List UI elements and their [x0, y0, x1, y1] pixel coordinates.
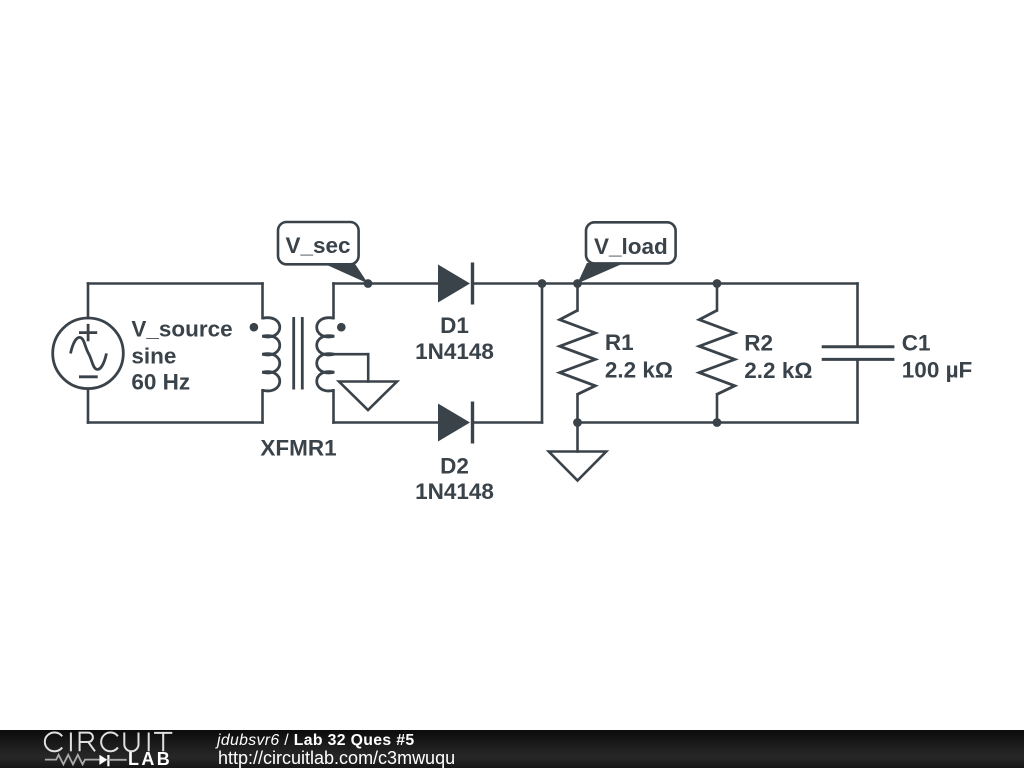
- footer bar: [0, 730, 1024, 768]
- wire R1 top lead: [576, 284, 579, 311]
- svg-text:V_source: V_source: [131, 316, 232, 341]
- wire bottom-left rail: [88, 421, 263, 424]
- wire C1 bottom lead: [856, 360, 859, 423]
- logo letter R: [80, 733, 95, 752]
- wire D2 cathode out: [473, 421, 543, 424]
- resistor R2 label: [744, 330, 812, 383]
- transformer XFMR1 primary coil: [262, 318, 279, 391]
- node V_sec flag: [278, 222, 368, 284]
- svg-text:1N4148: 1N4148: [415, 479, 494, 504]
- logo letter T: [154, 733, 172, 751]
- transformer secondary polarity dot: [337, 323, 346, 332]
- ground (load): [549, 452, 606, 481]
- svg-text:1N4148: 1N4148: [415, 339, 494, 364]
- logo letter I: [148, 733, 150, 752]
- logo LAB text: [128, 752, 172, 766]
- wire center tap horizontal: [335, 353, 369, 356]
- title text: [217, 733, 415, 748]
- svg-text:R2: R2: [744, 330, 773, 355]
- svg-text:D2: D2: [440, 453, 469, 478]
- svg-text:2.2 kΩ: 2.2 kΩ: [605, 357, 673, 382]
- svg-text:XFMR1: XFMR1: [260, 436, 336, 461]
- resistor R1 label: [605, 330, 673, 383]
- diode D2 label: [415, 453, 494, 504]
- node dot diode junction: [538, 279, 547, 288]
- wire R1 bottom lead: [576, 394, 579, 422]
- CircuitLab logo: [0, 730, 190, 768]
- transformer XFMR1 core: [294, 317, 303, 390]
- wire C1 top lead: [856, 284, 859, 347]
- diode D1: [438, 263, 473, 305]
- svg-text:R1: R1: [605, 330, 634, 355]
- svg-text:2.2 kΩ: 2.2 kΩ: [744, 358, 812, 383]
- node dot V_load: [573, 279, 582, 288]
- wire diode junction vertical: [541, 284, 544, 423]
- node V_load flag: [577, 222, 675, 283]
- logo letter I: [70, 733, 72, 752]
- wire R1 ground stub: [576, 423, 579, 452]
- wire source bottom stub: [87, 389, 90, 423]
- svg-text:D1: D1: [440, 313, 469, 338]
- diode D2: [438, 402, 473, 444]
- wire primary bottom lead: [261, 390, 264, 422]
- resistor R1: [560, 310, 596, 394]
- node dot R2 bottom: [713, 418, 722, 427]
- wire R2 bottom lead: [716, 394, 719, 422]
- ground (center tap): [339, 382, 397, 411]
- wire bottom load rail: [578, 421, 858, 424]
- svg-text:60 Hz: 60 Hz: [131, 370, 190, 395]
- svg-text:V_load: V_load: [594, 234, 668, 259]
- capacitor C1 label: [902, 330, 973, 382]
- wire primary top lead: [261, 284, 264, 319]
- node dot V_sec: [364, 279, 373, 288]
- node dot R2 top: [713, 279, 722, 288]
- wire source top stub: [87, 284, 90, 319]
- voltage source label V_source sine 60 Hz: [131, 316, 232, 394]
- resistor R2: [699, 310, 735, 394]
- logo letter C: [101, 733, 118, 752]
- wire center tap ground stub: [367, 354, 370, 381]
- svg-text:100 µF: 100 µF: [902, 357, 973, 382]
- wire bottom rail to D2 anode: [334, 421, 439, 424]
- wire secondary top lead: [332, 284, 335, 319]
- node dot R1 bottom: [573, 418, 582, 427]
- wire R2 top lead: [716, 284, 719, 311]
- url text: [218, 749, 455, 767]
- transformer primary polarity dot: [250, 323, 259, 332]
- svg-text:V_sec: V_sec: [286, 233, 351, 258]
- logo resistor squiggle: [45, 755, 100, 765]
- wire top rail to D1 anode: [334, 282, 439, 285]
- wire top-left rail: [88, 282, 263, 285]
- capacitor C1: [822, 347, 895, 360]
- voltage source V_source: [53, 318, 124, 389]
- transformer XFMR1 secondary coil: [317, 318, 334, 391]
- logo letter C: [45, 733, 62, 752]
- wire secondary bottom lead: [332, 390, 335, 422]
- diode D1 label: [415, 313, 494, 364]
- svg-text:sine: sine: [131, 343, 176, 368]
- logo diode: [99, 755, 107, 765]
- wire D1 cathode to C1 corner: [473, 282, 858, 285]
- svg-text:C1: C1: [902, 330, 931, 355]
- logo letter U: [124, 733, 138, 752]
